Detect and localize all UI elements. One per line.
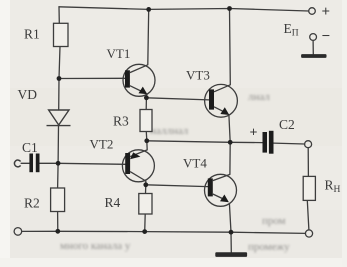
wire bottom rail <box>22 231 306 233</box>
wire output terminal to RH <box>307 148 309 177</box>
resistor R4 <box>139 194 152 215</box>
wire minus terminal to supply ground <box>312 40 314 54</box>
svg-text:VT4: VT4 <box>183 156 207 171</box>
wire node F to VT4 base <box>146 185 208 187</box>
wire node D to VT2 emitter <box>146 141 148 150</box>
svg-text:R4: R4 <box>105 195 121 210</box>
node C: VT1 emitter / R3 / VT3 base <box>144 95 149 100</box>
plus supply terminal <box>309 8 316 15</box>
node B: left line / C1 / VT2 base <box>56 161 61 166</box>
resistor R3 <box>140 110 152 132</box>
svg-text:пром: пром <box>262 215 286 227</box>
svg-text:VD: VD <box>18 87 38 102</box>
node left line / bottom rail <box>55 229 60 234</box>
node F: VT2 collector / R4 / VT4 base <box>143 182 148 187</box>
wire R4 bottom to bottom rail <box>144 214 147 232</box>
svg-text:+: + <box>250 125 258 140</box>
wire VT4 emitter to bottom rail <box>229 203 231 232</box>
ground (bottom, chassis) <box>215 252 247 257</box>
svg-text:много канала у: много канала у <box>60 240 131 252</box>
node D: R3 / VT2 emitter / middle rail <box>144 138 149 143</box>
svg-text:C2: C2 <box>279 117 295 132</box>
output bottom terminal <box>305 230 312 237</box>
svg-text:+: + <box>322 4 331 20</box>
faint ghost text from page back side <box>60 91 290 253</box>
resistor R2 <box>51 188 65 212</box>
resistor R1 <box>54 23 69 46</box>
node bottom rail / VT4 emitter / ground <box>229 230 234 235</box>
svg-text:наллнал: наллнал <box>150 125 189 137</box>
wire RH to bottom right terminal <box>307 200 309 230</box>
wire VT1 base (node A to base) <box>59 77 125 79</box>
wire R1 bottom to node A <box>59 47 60 79</box>
wire diode bottom to node B <box>57 126 59 164</box>
wire node E to VT4 collector vertical <box>229 142 231 174</box>
output top terminal <box>305 141 312 148</box>
wire node C to VT3 base <box>146 98 209 100</box>
svg-text:промежу: промежу <box>248 241 290 253</box>
wire VT1 emitter to node C <box>145 94 148 98</box>
minus supply terminal <box>310 34 317 41</box>
transistor VT3 <box>205 84 238 117</box>
svg-text:C1: C1 <box>22 140 38 155</box>
wire VT2 collector to node F <box>145 181 147 185</box>
ground (supply) <box>301 54 326 58</box>
wire R2 bottom to bottom rail <box>57 212 59 232</box>
transistor VT2 <box>122 150 154 182</box>
wire bottom ground stem <box>230 232 232 252</box>
svg-text:лнал: лнал <box>248 91 270 103</box>
wire R3 bottom to node D <box>145 132 148 141</box>
svg-text:R1: R1 <box>24 26 40 41</box>
svg-text:−: − <box>322 29 331 45</box>
input terminal <box>14 160 20 167</box>
svg-text:VT2: VT2 <box>90 137 114 152</box>
wire node F to R4 top <box>145 185 147 194</box>
resistor RH <box>303 176 315 200</box>
wire input terminal to C1 <box>21 162 29 164</box>
transistor VT4 <box>205 174 237 206</box>
wire VT1 collector vertical <box>147 9 150 64</box>
node top rail / VT3 collector <box>227 6 232 11</box>
wire C2 to output terminal <box>274 142 305 145</box>
transistor VT1 <box>123 64 155 96</box>
diode VD <box>47 110 71 126</box>
wire node D to node E (middle rail) <box>147 141 263 143</box>
wire VT3 emitter to node E <box>229 115 230 142</box>
svg-text:VT3: VT3 <box>186 67 210 82</box>
capacitor C2 <box>263 131 274 154</box>
svg-text:R3: R3 <box>113 113 129 128</box>
wire node B to R2 top <box>57 163 60 188</box>
node R4 / bottom rail <box>142 229 147 234</box>
wire C1 to node B and VT2 base <box>40 163 126 164</box>
wire top rail <box>59 7 309 11</box>
bottom left terminal <box>14 228 22 236</box>
node E: middle rail / VT3 emitter / VT4 collector / C2 <box>228 140 233 145</box>
svg-text:VT1: VT1 <box>107 46 131 61</box>
node junction dots <box>55 6 233 235</box>
node top rail / VT1 collector <box>146 7 151 12</box>
wire node C to R3 top <box>145 98 147 110</box>
svg-text:R2: R2 <box>24 195 40 210</box>
node A: left line / VT1 base <box>57 76 62 81</box>
wire VT3 collector vertical <box>229 9 232 85</box>
capacitor C1 <box>29 154 39 173</box>
wire node A to diode top <box>58 79 60 111</box>
wire left vertical top (rail to R1) <box>58 7 60 24</box>
